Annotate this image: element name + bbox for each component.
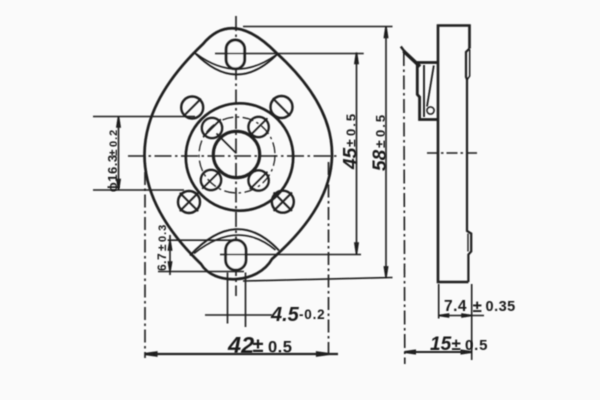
58 top extension line [243, 26, 393, 28]
horizontal centerline front view [128, 155, 340, 157]
dimension 6.7 leader top [168, 239, 234, 241]
dimension φ16.3 line with arrows [117, 117, 120, 191]
dimension 42 extension right (dash-dot) [328, 162, 330, 358]
center hole radius line [217, 134, 237, 154]
pin bolt circle (chain line) [199, 117, 275, 193]
dimension 58±0.5 line with arrows [384, 27, 387, 278]
dimension 45±0.5 line with arrows [355, 53, 358, 255]
58 bottom extension line [243, 278, 393, 282]
side view bottom-right tab inner line [467, 234, 469, 252]
top mounting slot [226, 40, 244, 69]
dimension 7.4 extension left [438, 284, 440, 319]
rivet hole top-left with slash [181, 97, 203, 119]
dimension 6.7 line with arrows [168, 235, 171, 275]
bottom recess crescent outer arc [190, 229, 279, 255]
dimension φ16.3 tangent leader top [93, 116, 195, 118]
dimension 15 line with arrows [405, 351, 472, 354]
pin hole top-right [248, 117, 268, 137]
top slot centerline / 45 top extension [215, 53, 364, 55]
dimension 4.5 line with arrows [205, 314, 272, 316]
side view pin plane dash-dot line / 15 left extension [404, 52, 405, 364]
flange outline [144, 28, 332, 279]
side view solder lug outline [416, 63, 438, 120]
top recess crescent inner arc [197, 54, 277, 69]
label φ16.3±0.2 (rotated) [105, 129, 120, 192]
label 6.7±0.3 (rotated) [155, 224, 169, 271]
pin hole bottom-left [201, 170, 221, 190]
bottom slot centerline / 45 bottom extension [220, 254, 361, 256]
dimension 7.4 line with arrows [439, 314, 484, 317]
side view body right edge with tabs [466, 49, 471, 283]
rivet hole bottom-left with cross [178, 191, 200, 213]
socket outer circle [186, 103, 293, 210]
pin hole top-left [202, 118, 222, 138]
side view body top left bottom edges [438, 26, 470, 283]
side view spring contact diagonal [404, 51, 421, 67]
label 45±0.5 (rotated) [341, 112, 362, 170]
dimension 4.5 extension left [227, 273, 229, 324]
label 58±0.5 (rotated) [370, 113, 391, 171]
top recess crescent outer arc [195, 53, 278, 75]
side view lug rivet circle [427, 107, 434, 114]
bottom mounting slot [226, 240, 246, 270]
dimension 4.5 extension right [245, 273, 247, 328]
dimension 42 line with arrows [145, 352, 338, 355]
rivet hole bottom-right with cross [272, 191, 294, 213]
dimension φ16.3 tangent leader bottom [93, 189, 184, 191]
side view lug inner line [423, 65, 425, 117]
bottom recess crescent inner arc [194, 235, 276, 253]
side view top-right tab outer line [467, 50, 469, 80]
dimension 7.4 / 15 extension right [471, 284, 473, 360]
dimension 42 extension left (dash-dot) [144, 172, 146, 358]
vertical centerline front view [235, 16, 237, 296]
side view horizontal centerline [427, 152, 478, 154]
side view lug diagonal [427, 66, 434, 107]
dimension 6.7 leader bottom [158, 271, 244, 273]
side view spring tip stub [401, 47, 405, 52]
center hole [213, 131, 259, 177]
rivet hole top-right with slash [271, 96, 293, 118]
pin hole bottom-right [248, 170, 268, 190]
